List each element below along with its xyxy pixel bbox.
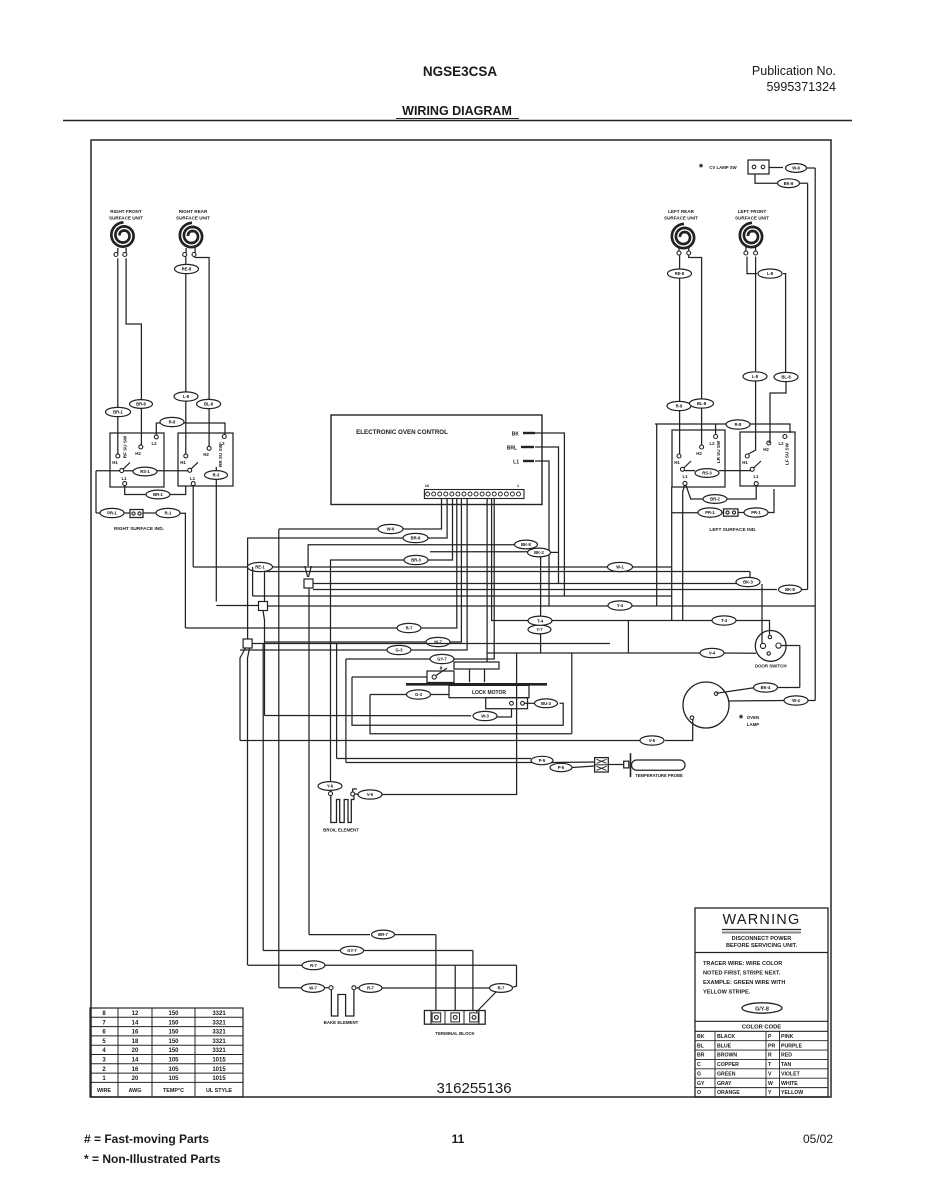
wire drop x=658 [656,424,658,606]
svg-text:H2: H2 [763,447,769,452]
connector W-1 [608,562,633,571]
svg-text:150: 150 [168,1030,179,1036]
svg-text:P-5: P-5 [558,765,565,770]
svg-text:LEFT FRONT: LEFT FRONT [738,209,767,214]
wire: lamp lower-left [665,720,693,741]
connector BK-8c [779,585,802,594]
bus y=644 from node C [252,643,610,645]
drop to terminal 3 [472,951,474,1012]
connector BK-3 [736,577,760,586]
wire: drop x=629 [627,621,629,654]
svg-text:H2: H2 [135,451,141,456]
svg-text:R-3: R-3 [213,473,220,478]
wire: to terminal block diagonal [513,965,517,987]
svg-text:BK: BK [512,432,520,438]
wire: L1-L1 link left pair [686,485,703,499]
svg-text:3321: 3321 [212,1039,226,1045]
svg-text:P-5: P-5 [539,758,546,763]
svg-text:RE-8: RE-8 [675,271,685,276]
svg-text:150: 150 [168,1039,179,1045]
svg-text:AWG: AWG [129,1088,142,1094]
extend bus y=965 right [455,964,516,966]
svg-text:150: 150 [168,1048,179,1054]
svg-text:BLUE: BLUE [717,1043,732,1049]
svg-text:BR-6: BR-6 [411,536,421,541]
connector RE-8b [668,269,692,278]
svg-text:LEFT REAR: LEFT REAR [668,209,694,214]
svg-text:Y-6: Y-6 [327,784,334,789]
connector RS-3 [695,469,719,478]
node B feed [216,605,258,607]
svg-text:GY-7: GY-7 [437,657,447,662]
svg-text:SURFACE UNIT: SURFACE UNIT [176,216,210,221]
node C splay drops [240,648,246,741]
svg-text:BK-8: BK-8 [785,587,795,592]
wire BK from EOC [535,433,564,596]
node A [304,579,313,588]
connector V-6b [358,790,382,799]
node B drop [263,611,265,716]
svg-text:G-3: G-3 [396,648,404,653]
svg-text:16: 16 [132,1067,139,1073]
EOC right pin labels BK BRL L1 [507,432,535,466]
wire: to oven lamp top [777,687,800,689]
svg-text:BK-2: BK-2 [534,550,544,555]
connector R-7b [302,961,325,970]
connector R-8b [667,401,691,410]
wire: lock loop inner [352,677,563,725]
junction arrow into node A [305,566,308,577]
drop to terminal 2 [454,965,456,1011]
wire: EOC t-wire 6 [411,499,467,651]
wire to probe [608,764,623,766]
wire: EOC t-wire 2 [428,499,447,539]
svg-text:GY-7: GY-7 [347,948,357,953]
svg-text:ORANGE: ORANGE [717,1090,740,1096]
svg-text:Y-4: Y-4 [617,603,624,608]
svg-text:3321: 3321 [212,1011,226,1017]
connector RS-1 [133,467,157,476]
lock switch arm box [352,666,454,683]
EOC terminal strip [424,483,524,499]
svg-text:12: 12 [132,1011,139,1017]
svg-text:UL STYLE: UL STYLE [206,1088,232,1094]
svg-text:SURFACE UNIT: SURFACE UNIT [664,216,698,221]
svg-text:R-1: R-1 [165,511,172,516]
svg-text:BK-4: BK-4 [761,685,771,690]
svg-text:* = Non-Illustrated Parts: * = Non-Illustrated Parts [84,1152,221,1166]
wire: cv lamp sw to right bus [769,167,783,169]
connector P-5 pair [531,756,553,764]
wire gauge table [90,1008,243,1097]
bus y=589.5 from node A [313,589,777,591]
svg-text:PR-1: PR-1 [107,511,117,516]
svg-text:W-6: W-6 [387,527,395,532]
wire: lock loop outer [571,653,573,734]
connector RE-8 [175,264,199,273]
svg-text:#: # [440,666,443,672]
svg-text:YELLOW: YELLOW [781,1090,803,1096]
svg-text:GY: GY [697,1081,705,1087]
svg-text:PR-1: PR-1 [705,510,715,515]
connector R-7 [397,623,421,632]
svg-text:14: 14 [132,1020,139,1026]
svg-text:RIGHT REAR: RIGHT REAR [179,209,208,214]
svg-text:R-7: R-7 [406,626,413,631]
wire: broil right [353,789,357,792]
svg-text:105: 105 [168,1067,179,1073]
CV lamp switch [699,160,769,174]
connector GY-7b [341,946,364,955]
svg-text:COLOR CODE: COLOR CODE [742,1025,781,1031]
connector R-1 [156,508,180,517]
wire: RR L1 drop [192,486,194,567]
lock motor cam plate [454,662,499,669]
surface unit coil: left front [735,209,769,247]
wire L1 from EOC [535,461,549,606]
connector PR-1 [100,508,124,517]
wire: RF left terminal to switch H1 [117,258,119,454]
wire: cv lamp sw lower [755,175,777,184]
svg-text:20: 20 [132,1048,139,1054]
svg-text:BK-8: BK-8 [784,181,794,186]
svg-text:H1: H1 [674,460,680,465]
svg-text:R: R [768,1053,772,1059]
svg-text:RED: RED [781,1053,792,1059]
svg-text:14: 14 [132,1058,139,1064]
wire: temp probe feed 1 [336,644,338,759]
svg-text:RS-3: RS-3 [702,471,712,476]
connector R-8c [726,420,750,429]
svg-text:P: P [768,1034,772,1040]
wire: L2-L2 link left pair [716,424,726,435]
svg-text:H2: H2 [696,451,702,456]
svg-text:TEMP°C: TEMP°C [163,1088,184,1094]
svg-text:G: G [697,1071,701,1077]
wire: LF right terminal straight down to H1 [755,257,757,371]
svg-text:16: 16 [425,483,430,488]
svg-text:COPPER: COPPER [717,1062,739,1068]
connector BR-7 [372,930,395,939]
probe inline connector [624,761,629,768]
connector PR-1c [744,508,768,517]
bus y=584 from node A [313,583,742,585]
svg-text:Y-7: Y-7 [536,627,543,632]
wire: indicator drop [180,513,185,628]
bus y=596 [253,595,672,597]
svg-text:BEFORE SERVICING UNIT.: BEFORE SERVICING UNIT. [726,943,798,949]
svg-text:W-8: W-8 [792,166,800,171]
terminal block [424,1011,485,1037]
wire: BL-8 down to L2 [769,382,786,443]
svg-text:105: 105 [168,1058,179,1064]
svg-text:L2: L2 [709,441,715,446]
svg-text:# = Fast-moving Parts: # = Fast-moving Parts [84,1132,209,1146]
wire: RR left terminal to H1 [185,257,187,454]
wire: left drop to indicator [95,471,97,513]
bus y=606 from node B [268,605,816,607]
svg-text:PURPLE: PURPLE [781,1043,803,1049]
bus y=965 [248,964,302,966]
svg-text:RR SU SW: RR SU SW [218,443,223,467]
wire: EOC t-wire 1 [403,499,442,530]
svg-text:BR-8: BR-8 [136,402,146,407]
svg-text:*: * [739,713,744,725]
connector BL-8b [690,399,714,408]
connector BR-2 [703,495,727,504]
electronic oven control box [331,415,542,505]
svg-text:BR-1: BR-1 [153,492,163,497]
wire: EOC t-wire 5 [450,499,461,643]
svg-text:BR-1: BR-1 [113,410,123,415]
temperature probe [631,753,686,778]
svg-text:T-4: T-4 [721,618,728,623]
wire drop x=280 [278,529,280,988]
svg-text:BL: BL [697,1043,705,1049]
svg-text:DOOR SWITCH: DOOR SWITCH [755,664,787,669]
wire: RR arm drop [215,467,217,602]
svg-text:O: O [697,1090,701,1096]
node A drop [308,588,310,935]
connector V-6 [640,736,664,745]
svg-text:L1: L1 [190,476,196,481]
svg-text:3321: 3321 [212,1048,226,1054]
wire: LR left terminal to H1 [679,255,681,454]
coil terminals [114,246,758,257]
wire: lamp right to bus [729,700,785,703]
surface unit coil: right front [109,209,143,247]
connector L-8 [174,392,198,401]
svg-text:SURFACE UNIT: SURFACE UNIT [735,216,769,221]
door switch [755,631,787,669]
switch RF INF SW box [110,433,164,487]
connector W-3 [473,711,497,720]
svg-text:316255136: 316255136 [436,1080,511,1097]
svg-text:LF SU SW: LF SU SW [785,442,790,465]
wire right bus verticals [807,183,809,589]
svg-text:PINK: PINK [781,1034,794,1040]
connector BL-8c [774,372,798,381]
svg-text:RE-8: RE-8 [182,267,192,272]
wire: EOC t-wire 9 [454,499,494,660]
svg-text:R-8: R-8 [735,422,742,427]
svg-text:R-7: R-7 [310,963,317,968]
svg-text:BK: BK [697,1034,705,1040]
wire tail [768,489,774,513]
surface unit coil: left rear [664,209,698,248]
svg-text:L-8: L-8 [752,374,759,379]
svg-text:L1: L1 [682,474,688,479]
svg-text:V-6: V-6 [367,792,374,797]
svg-text:RF SU SW: RF SU SW [123,435,128,458]
switch RR INF SW box [178,433,233,486]
surface unit coil: right rear [176,209,210,247]
svg-text:NOTED FIRST, STRIPE NEXT.: NOTED FIRST, STRIPE NEXT. [703,971,781,977]
wire: lock motor left feed [431,694,449,696]
svg-text:BL-8: BL-8 [781,375,791,380]
wire: lock feed from node B [265,715,472,717]
wire [807,167,816,169]
wire: L2 to L2 link [156,423,160,435]
diagram border frame [91,140,831,1097]
wire: door switch left [724,652,756,654]
connector Y-4 [608,601,632,610]
svg-text:H1: H1 [112,460,118,465]
svg-text:TEMPERATURE PROBE: TEMPERATURE PROBE [635,773,683,778]
wire: EOC t-wire 4 [421,499,457,629]
svg-text:WIRE: WIRE [97,1088,111,1094]
connector BR-3 [404,555,428,564]
node C [243,639,252,648]
svg-text:WHITE: WHITE [781,1081,798,1087]
connector BR-1b [146,490,170,499]
bake element [324,986,359,1025]
svg-text:BLACK: BLACK [717,1034,735,1040]
connector BK-8 pair [515,540,538,549]
svg-text:BL-8: BL-8 [204,402,214,407]
svg-text:1015: 1015 [212,1076,226,1082]
wire: box corner drop to T-4 bus [671,487,673,621]
wire: node A feed from BRL chain [308,545,514,566]
svg-text:1015: 1015 [212,1067,226,1073]
svg-text:RIGHT SURFACE IND.: RIGHT SURFACE IND. [114,526,164,532]
svg-text:5995371324: 5995371324 [766,80,836,94]
svg-text:DISCONNECT POWER: DISCONNECT POWER [732,936,792,942]
connector BK-4 [754,683,778,692]
left surface indicator row [672,512,698,514]
svg-text:PR: PR [768,1043,775,1049]
connector T-4 [712,616,736,625]
svg-text:Publication No.: Publication No. [752,64,836,78]
svg-text:R-8: R-8 [169,420,176,425]
svg-text:BU-3: BU-3 [541,701,551,706]
connector PR-1b [698,508,722,517]
connector RE-1 [248,562,273,571]
svg-text:RE-1: RE-1 [255,565,265,570]
connector T-4b [528,616,552,625]
svg-text:L1: L1 [121,476,127,481]
wire: LF left terminal jog right [747,257,757,274]
svg-text:18: 18 [132,1039,139,1045]
lock motor cam stem [469,669,471,682]
svg-text:BK-3: BK-3 [743,580,753,585]
svg-text:BL-8: BL-8 [697,401,707,406]
connector Y-7 [528,625,551,634]
svg-text:BR-2: BR-2 [710,497,720,502]
connector G-3b [407,690,431,699]
connector W-6 [378,524,403,533]
wire: arm bus left pair [685,470,696,472]
bus y=935 [309,934,370,936]
wire: switch arm bus [96,470,120,472]
svg-text:3321: 3321 [212,1020,226,1026]
svg-text:W-1: W-1 [616,565,624,570]
svg-text:W-3: W-3 [481,714,489,719]
svg-text:T-4: T-4 [537,618,544,623]
node B [259,602,268,611]
svg-text:105: 105 [168,1076,179,1082]
connector L-8b [743,372,767,381]
svg-text:NGSE3CSA: NGSE3CSA [423,64,498,79]
svg-text:GRAY: GRAY [717,1081,732,1087]
connector W-8 [786,164,807,173]
oven lamp [683,682,759,728]
connector W-7b [302,984,325,993]
svg-text:LOCK MOTOR: LOCK MOTOR [472,690,506,696]
warning box [695,908,828,1097]
wire: EOC t-wire 3 to broil [428,499,453,561]
lock motor body [449,685,529,697]
connector BK-8 [778,179,800,188]
svg-text:EXAMPLE: GREEN WIRE WITH: EXAMPLE: GREEN WIRE WITH [703,980,785,986]
svg-text:R-8: R-8 [676,404,683,409]
broil element [323,792,359,833]
svg-text:RS-1: RS-1 [140,469,150,474]
svg-text:ELECTRONIC OVEN CONTROL: ELECTRONIC OVEN CONTROL [356,429,448,436]
svg-text:BROIL ELEMENT: BROIL ELEMENT [323,828,359,833]
connector BR-6 [403,533,428,542]
svg-text:L2: L2 [151,441,157,446]
connector Y-6 [318,782,342,791]
connector GY-7 [430,654,454,663]
svg-text:BR-3: BR-3 [411,558,421,563]
header rule [63,120,852,122]
svg-text:PR-1: PR-1 [751,510,761,515]
wire: L1 link below boxes [125,486,146,495]
svg-text:LR SU SW: LR SU SW [716,440,721,463]
connector W-4 [784,696,808,705]
svg-text:H1: H1 [742,460,748,465]
svg-text:16: 16 [132,1030,139,1036]
lock motor mount bar [406,683,547,686]
svg-text:W: W [768,1081,773,1087]
bus y=567 with junction [193,566,612,568]
svg-text:TRACER WIRE: WIRE COLOR: TRACER WIRE: WIRE COLOR [703,961,782,967]
connector R-7c [359,984,382,993]
connector BL-8 [197,399,221,408]
svg-text:RIGHT FRONT: RIGHT FRONT [110,209,142,214]
connector R-7d [490,984,513,993]
svg-text:YELLOW STRIPE.: YELLOW STRIPE. [703,990,751,996]
wire BRL from EOC [535,447,559,584]
svg-text:L2: L2 [778,441,784,446]
svg-text:OVEN: OVEN [747,715,759,720]
svg-text:3321: 3321 [212,1030,226,1036]
svg-text:TERMINAL BLOCK: TERMINAL BLOCK [435,1031,475,1036]
connector L-8c [758,269,782,278]
svg-text:W-7: W-7 [309,986,317,991]
svg-text:BR: BR [697,1053,705,1059]
svg-text:L1: L1 [513,460,519,466]
svg-text:H2: H2 [203,452,209,457]
svg-text:WIRING DIAGRAM: WIRING DIAGRAM [402,104,512,118]
wire drop x=261 [262,644,264,951]
indicator lamp connector block 2 [722,509,744,516]
svg-text:BAKE ELEMENT: BAKE ELEMENT [324,1020,359,1025]
svg-text:V-6: V-6 [649,738,656,743]
svg-text:1015: 1015 [212,1058,226,1064]
bus y=951 [263,950,340,952]
svg-text:*: * [699,162,704,174]
svg-text:BK-8: BK-8 [521,542,531,547]
svg-text:V: V [768,1071,772,1077]
svg-text:SURFACE UNIT: SURFACE UNIT [109,216,143,221]
wire: temp probe feed 2 [346,762,550,764]
wire: RF right terminal jog to H2 [126,258,141,445]
svg-text:GREEN: GREEN [717,1071,736,1077]
bus y=571.5 [265,571,751,573]
wire: door switch right [781,645,800,647]
